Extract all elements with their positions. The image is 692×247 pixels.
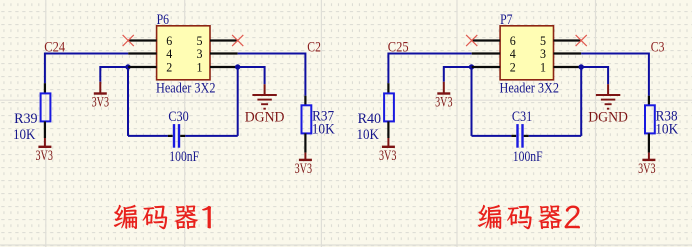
pin 5 stub bbox=[210, 39, 238, 41]
svg-text:P7: P7 bbox=[500, 12, 512, 28]
no-connect X pin 5 of P6 bbox=[232, 35, 243, 46]
svg-text:3V3: 3V3 bbox=[295, 161, 312, 177]
svg-text:3V3: 3V3 bbox=[36, 148, 53, 164]
svg-text:DGND: DGND bbox=[588, 110, 628, 126]
resistor R38 pin 1 bbox=[648, 96, 650, 106]
capacitor C30 pin 2 bbox=[180, 135, 185, 137]
wire C30 bottom left bbox=[128, 135, 168, 137]
wire C31 bottom left bbox=[472, 135, 512, 137]
pin 2 stub bbox=[128, 66, 156, 68]
svg-text:C3: C3 bbox=[651, 39, 665, 55]
resistor R39 body bbox=[41, 93, 51, 121]
svg-text:C30: C30 bbox=[168, 109, 188, 125]
capacitor C30 plates bbox=[174, 124, 179, 148]
svg-text:Header 3X2: Header 3X2 bbox=[156, 81, 216, 97]
pin 4 stub bbox=[128, 52, 156, 54]
resistor R39 pin 1 bbox=[44, 83, 46, 93]
power 3V3 branch bbox=[437, 82, 450, 94]
pin 3 stub bbox=[554, 52, 582, 54]
wire 3V3 branch bbox=[444, 67, 472, 82]
svg-text:DGND: DGND bbox=[245, 110, 285, 126]
wire net C24 bbox=[45, 54, 128, 84]
wire net C25 bbox=[388, 54, 471, 84]
svg-text:Header 3X2: Header 3X2 bbox=[500, 81, 560, 97]
wire C30 left leg bbox=[127, 67, 129, 136]
capacitor C31 plates bbox=[518, 124, 523, 148]
resistor R37 pin 2 bbox=[304, 133, 306, 152]
resistor R40 body bbox=[384, 93, 394, 121]
title 编码器2 bbox=[478, 205, 580, 230]
ground DGND of P6 bbox=[252, 84, 276, 109]
svg-text:100nF: 100nF bbox=[513, 149, 543, 165]
wire net C2 bbox=[238, 54, 306, 96]
no-connect X pin 6 of P6 bbox=[123, 35, 134, 46]
wire 3V3 branch bbox=[100, 67, 128, 82]
svg-text:3V3: 3V3 bbox=[92, 95, 109, 111]
pin 2 stub bbox=[472, 66, 500, 68]
connector P6 body bbox=[157, 26, 210, 80]
no-connect X pin 5 of P7 bbox=[576, 35, 587, 46]
svg-text:10K: 10K bbox=[357, 127, 380, 143]
pin 1 stub bbox=[210, 66, 238, 68]
svg-text:C2: C2 bbox=[307, 39, 321, 55]
junction node pin1 of P7 bbox=[579, 64, 584, 69]
resistor R38 pin 2 bbox=[648, 133, 650, 152]
no-connect X pin 6 of P7 bbox=[466, 35, 477, 46]
capacitor C30 pin 1 bbox=[168, 135, 173, 137]
pin 6 stub bbox=[128, 39, 156, 41]
power 3V3 below R39 bbox=[38, 138, 51, 147]
resistor R38 body bbox=[645, 105, 655, 133]
resistor R37 body bbox=[302, 105, 312, 133]
svg-text:1: 1 bbox=[540, 60, 546, 75]
pin 5 stub bbox=[554, 39, 582, 41]
wire to DGND bbox=[581, 67, 608, 84]
wire C30 right leg bbox=[237, 67, 239, 136]
pin 4 stub bbox=[472, 52, 500, 54]
svg-text:10K: 10K bbox=[655, 122, 679, 138]
svg-text:10K: 10K bbox=[13, 127, 36, 143]
svg-text:2: 2 bbox=[510, 60, 516, 75]
capacitor C31 pin 2 bbox=[524, 135, 529, 137]
wire C31 left leg bbox=[471, 67, 473, 136]
svg-text:3V3: 3V3 bbox=[435, 95, 452, 111]
wire C31 right leg bbox=[580, 67, 582, 136]
svg-text:R40: R40 bbox=[358, 111, 382, 127]
capacitor C31 pin 1 bbox=[511, 135, 516, 137]
pin 6 stub bbox=[472, 39, 500, 41]
power 3V3 below R38 bbox=[642, 153, 655, 160]
resistor R40 pin 1 bbox=[387, 83, 389, 93]
svg-text:1: 1 bbox=[197, 60, 203, 75]
wire to DGND bbox=[238, 67, 265, 84]
resistor R39 pin 2 bbox=[44, 121, 46, 138]
junction node pin2 of P6 bbox=[125, 64, 130, 69]
svg-text:R39: R39 bbox=[14, 111, 37, 127]
wire net C3 bbox=[581, 54, 649, 96]
junction node pin2 of P7 bbox=[469, 64, 474, 69]
svg-text:2: 2 bbox=[166, 60, 172, 75]
pin 1 stub bbox=[554, 66, 582, 68]
svg-text:100nF: 100nF bbox=[169, 149, 199, 165]
title 编码器1 bbox=[114, 205, 211, 230]
svg-text:3V3: 3V3 bbox=[638, 161, 655, 177]
resistor R37 pin 1 bbox=[304, 96, 306, 106]
power 3V3 branch bbox=[94, 82, 107, 94]
power 3V3 below R40 bbox=[382, 138, 395, 147]
wire C31 bottom right bbox=[529, 135, 582, 137]
connector P7 body bbox=[500, 26, 553, 80]
pin 3 stub bbox=[210, 52, 238, 54]
svg-text:3V3: 3V3 bbox=[379, 148, 396, 164]
svg-text:10K: 10K bbox=[312, 122, 336, 138]
svg-text:C31: C31 bbox=[512, 109, 532, 125]
resistor R40 pin 2 bbox=[387, 121, 389, 138]
junction node pin1 of P6 bbox=[235, 64, 240, 69]
wire C30 bottom right bbox=[185, 135, 238, 137]
svg-text:P6: P6 bbox=[157, 12, 169, 28]
ground DGND of P7 bbox=[596, 84, 620, 109]
power 3V3 below R37 bbox=[299, 153, 312, 160]
